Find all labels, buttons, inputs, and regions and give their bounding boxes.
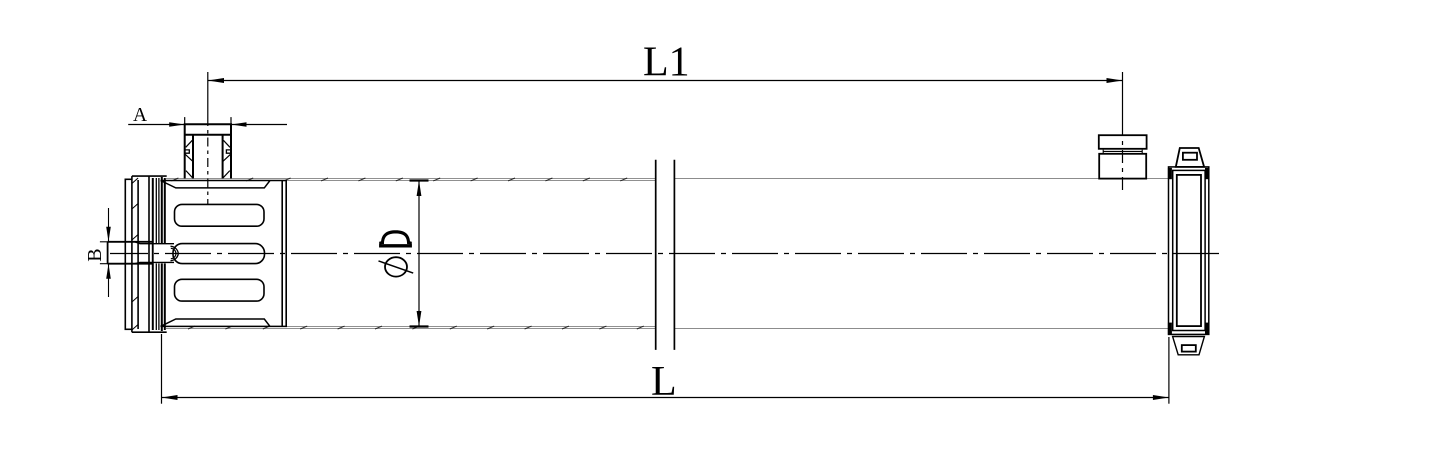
- side port bore and chamfer: [135, 242, 174, 264]
- right clamp corner bolt bars: [1168, 168, 1209, 335]
- shell bottom left (double gray line with winding ticks): [166, 327, 655, 329]
- side port outer stub: [108, 242, 152, 264]
- right fitting lip washer: [1103, 150, 1142, 154]
- main horizontal centerline: [110, 253, 1224, 255]
- top port thread hatches: [185, 140, 231, 178]
- dimension D line: [418, 181, 420, 327]
- dimension D label: D glyph (drawn): [379, 230, 412, 247]
- svg-text:L1: L1: [643, 40, 690, 86]
- dimension D arrowheads: [417, 181, 422, 327]
- top port centerline: [207, 72, 209, 204]
- top slot: [175, 204, 265, 226]
- right fitting centerline: [1122, 72, 1124, 192]
- right clamp ring inner window: [1177, 175, 1201, 326]
- ATD right edge double line: [282, 181, 286, 327]
- side port bore end nose: [171, 246, 179, 260]
- svg-text:L: L: [651, 359, 677, 405]
- right clamp top lug hole: [1183, 153, 1197, 160]
- svg-text:B: B: [84, 248, 106, 261]
- right clamp bottom lug hole: [1182, 345, 1196, 352]
- left end cap main block: [132, 176, 167, 332]
- shell bottom right (single gray line): [674, 328, 1168, 330]
- dimension B: [100, 208, 112, 297]
- dimension A: [128, 117, 287, 125]
- bottom slot: [175, 279, 265, 301]
- right fitting body: [1099, 154, 1146, 179]
- ATD face plate bevel top: [161, 181, 288, 188]
- left cap seal ring lines: [156, 178, 159, 330]
- ATD face plate bevel bottom: [161, 319, 288, 326]
- right clamp bottom lug: [1173, 337, 1205, 355]
- middle slot: [173, 244, 265, 264]
- svg-text:A: A: [133, 105, 147, 126]
- dimension D edge ticks: [410, 181, 429, 327]
- side port B white interior: [154, 243, 172, 263]
- left end cap outer plate: [125, 176, 132, 332]
- shell bottom winding ticks: [188, 326, 644, 329]
- shell top right (single gray line): [674, 178, 1168, 180]
- right top fitting cap: [1099, 135, 1147, 149]
- break line right: [673, 160, 675, 350]
- right clamp top lug: [1176, 148, 1204, 167]
- break line left: [655, 160, 657, 350]
- top port: [184, 124, 232, 178]
- shell top winding ticks: [171, 178, 627, 181]
- dimension D label: diameter symbol (drawn): [379, 257, 414, 276]
- left cap hatch marks on narrow plate: [132, 178, 138, 330]
- shell top left (double gray line with winding ticks): [166, 179, 655, 181]
- top port thread relief notches: [185, 150, 231, 153]
- dimension L: [162, 334, 1169, 404]
- right clamp ring second: [1173, 170, 1205, 330]
- right clamp ring outer: [1169, 167, 1209, 335]
- dimension L1: [208, 80, 1123, 82]
